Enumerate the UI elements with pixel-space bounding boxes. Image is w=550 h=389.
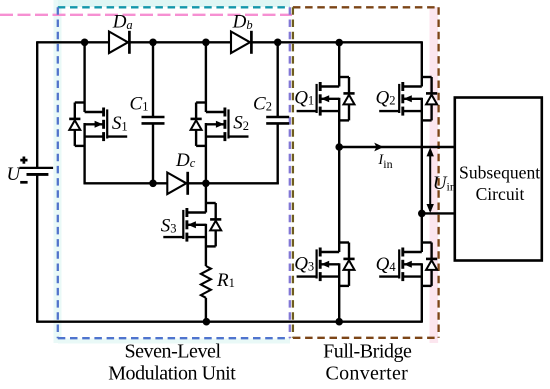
junction node (421,213) [418, 210, 426, 218]
svg-text:Seven-Level: Seven-Level [124, 341, 221, 363]
wire Q4 source to bottom rail [421, 263, 423, 322]
wire S1 drain [83, 42, 85, 112]
wire Q1 drain [338, 42, 340, 86]
svg-text:Dc: Dc [175, 150, 196, 171]
junction node (277,42) [274, 39, 282, 47]
wire Q2 source to lower node [421, 98, 423, 214]
wire Q4 drain [421, 213, 423, 252]
svg-text:Circuit: Circuit [476, 184, 525, 204]
artifact light cyan tint along blue box [54, 0, 62, 343]
svg-text:C2: C2 [253, 93, 272, 114]
polarity minus [20, 181, 27, 184]
svg-text:U: U [7, 164, 22, 185]
capacitor C1 [142, 117, 165, 123]
svg-text:C1: C1 [130, 93, 149, 114]
transistor S3 [163, 203, 221, 246]
wire Q3 source to bottom rail [338, 263, 340, 322]
wire bottom rail [37, 321, 422, 323]
svg-text:Q2: Q2 [376, 87, 396, 108]
svg-text:Iin: Iin [377, 152, 392, 171]
transistor Q3 [297, 243, 355, 286]
wire Q3 drain [338, 147, 340, 252]
junction node (205,42) [202, 39, 210, 47]
svg-text:S1: S1 [112, 113, 128, 134]
junction node (339,147) [335, 143, 343, 151]
polarity plus [20, 157, 27, 164]
wire top rail [37, 41, 422, 43]
current arrow Iin [374, 143, 383, 152]
boundary box Full-Bridge Converter (brown dashed) [293, 7, 439, 338]
wire mid rail right [188, 182, 279, 184]
svg-text:Subsequent: Subsequent [459, 163, 540, 183]
junction node (206,321) [203, 318, 211, 326]
junction node (339,321) [335, 318, 343, 326]
wire bridge mid rail to load [339, 146, 456, 148]
svg-text:Modulation Unit: Modulation Unit [108, 362, 236, 384]
wire C1 top [152, 42, 154, 117]
source U plates [20, 168, 54, 175]
svg-text:S3: S3 [161, 216, 177, 237]
junction node (339,42) [335, 39, 343, 47]
svg-text:Converter: Converter [325, 362, 408, 384]
capacitor C2 [266, 117, 289, 123]
svg-text:Q4: Q4 [376, 254, 397, 275]
wire C2 top [277, 42, 279, 117]
junction node (153,42) [149, 39, 157, 47]
wire S3 source to R1 [205, 224, 207, 266]
wire lower rail to load [422, 212, 456, 214]
transistor Q2 [379, 77, 437, 120]
transistor Q1 [297, 77, 355, 120]
transistor Q4 [379, 243, 437, 286]
transistor S2 [191, 103, 249, 146]
diode Dc [167, 172, 187, 195]
artifact pink band along right dashed border [430, 7, 439, 343]
wire mid rail left [84, 182, 168, 184]
wire C1 bottom [152, 123, 154, 183]
svg-text:S2: S2 [233, 113, 249, 134]
wire Q2 drain [421, 41, 423, 86]
wire C2 bottom [277, 123, 279, 184]
wire S3 drain [205, 183, 207, 212]
junction node (153,183) [149, 180, 157, 188]
diode Db [231, 31, 251, 54]
wire S1 source to mid rail [83, 123, 85, 184]
transistor S1 [69, 103, 127, 146]
artifact pink dashed line [0, 14, 292, 16]
block Subsequent Circuit [455, 98, 542, 261]
svg-text:Full-Bridge: Full-Bridge [323, 341, 412, 363]
wire left source leg lower [36, 175, 38, 323]
wire R1 to bottom rail [205, 298, 207, 322]
svg-text:Uin: Uin [433, 173, 456, 194]
boundary box Seven-Level Modulation Unit (blue dashed) [58, 7, 290, 338]
junction node (84,42) [81, 39, 89, 47]
wire S2 drain [205, 42, 207, 112]
svg-text:R1: R1 [216, 270, 235, 291]
junction node (205,183) [202, 180, 210, 188]
resistor R1 [201, 266, 211, 298]
voltage arrow Uin [427, 147, 434, 213]
svg-text:Q1: Q1 [294, 87, 314, 108]
diode Da [109, 31, 129, 54]
wire S2 source to mid rail [205, 123, 207, 183]
wire left source leg upper [36, 41, 38, 167]
svg-text:Q3: Q3 [294, 253, 314, 274]
wire Q1 source to mid node [338, 98, 340, 147]
